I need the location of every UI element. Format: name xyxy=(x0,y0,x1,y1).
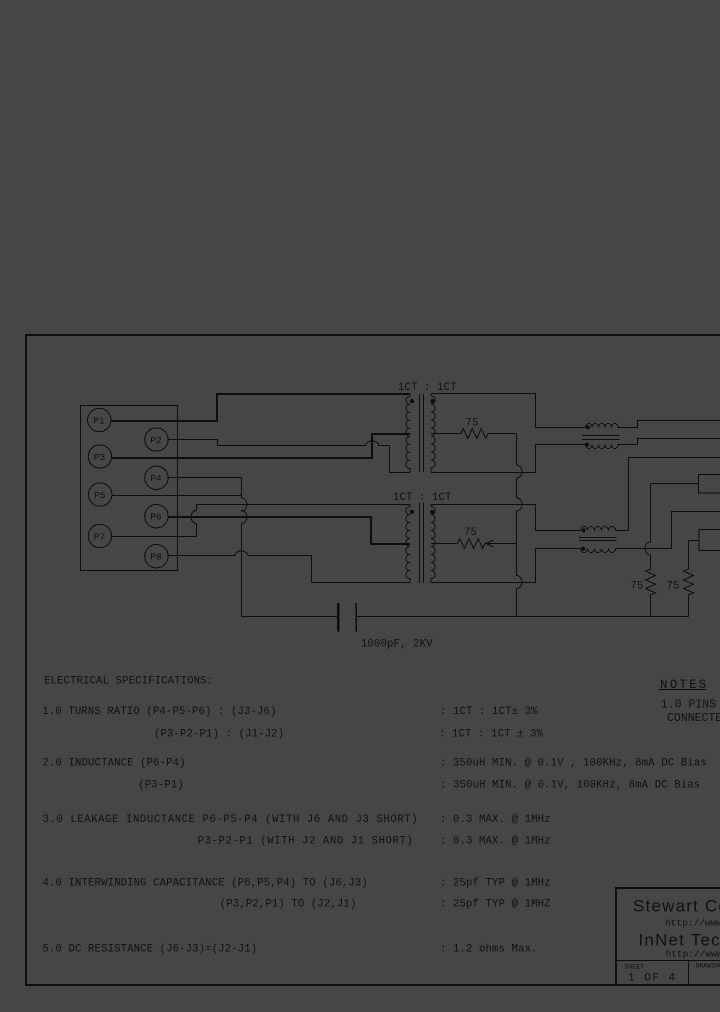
svg-text:1.0 PINS 4: 1.0 PINS 4 xyxy=(661,699,720,712)
choke L1 core xyxy=(582,436,620,440)
svg-text:SHEET: SHEET xyxy=(625,964,645,971)
svg-text:CONNECTED: CONNECTED xyxy=(667,712,720,725)
svg-text:ELECTRICAL SPECIFICATIONS:: ELECTRICAL SPECIFICATIONS: xyxy=(44,676,213,688)
svg-text:P4: P4 xyxy=(150,473,162,484)
connector box P1-P8 xyxy=(81,406,178,571)
title block divider vertical xyxy=(688,961,690,986)
resistor R3 75 ohm vertical xyxy=(645,484,656,617)
transformer T1 primary winding xyxy=(406,394,410,473)
wire T1 secondary top to choke L1 top xyxy=(431,394,586,428)
svg-text:: 350uH MIN. @ 0.1V , 100KHz,: : 350uH MIN. @ 0.1V , 100KHz, 8mA DC Bia… xyxy=(440,758,707,770)
transformer T1 secondary winding xyxy=(431,394,435,473)
wire T2 secondary bottom to choke L2 bottom xyxy=(431,549,581,583)
svg-text:P3: P3 xyxy=(94,452,106,463)
svg-text:75: 75 xyxy=(667,581,680,593)
connector J2 box xyxy=(699,530,720,551)
svg-text:2.0 INDUCTANCE (P6-P4): 2.0 INDUCTANCE (P6-P4) xyxy=(43,758,186,770)
wire bottom rail left segment xyxy=(242,616,338,618)
wire connector J1 to resistor R3 xyxy=(651,483,699,485)
wire P2 to T1 primary bottom xyxy=(168,440,410,473)
svg-text:75: 75 xyxy=(464,527,477,539)
resistor R4 75 ohm vertical xyxy=(684,541,694,617)
transformer T1 primary polarity dot xyxy=(410,399,414,403)
transformer T2 secondary winding xyxy=(431,505,435,583)
wire T1 secondary bottom to choke L1 bottom xyxy=(431,445,586,473)
wire bottom rail right segment xyxy=(357,616,688,618)
wire P7 to T2 primary top xyxy=(112,505,410,537)
svg-text:P6: P6 xyxy=(150,512,162,523)
wire T2 secondary top to choke L2 top xyxy=(431,505,581,531)
wire P3 to T1 primary center tap (bold) xyxy=(112,434,410,458)
wire P4/P5 vertical to bottom rail xyxy=(242,478,248,617)
pin P1 xyxy=(88,408,111,431)
arrow on R2 lead xyxy=(486,540,493,547)
svg-text:: 25pf TYP @ 1MHz: : 25pf TYP @ 1MHz xyxy=(440,878,551,890)
svg-text:http://www.innet.com: http://www.innet.com xyxy=(666,949,720,960)
pin P4 xyxy=(145,466,168,489)
choke L2 core xyxy=(579,538,617,541)
wire P8 to T2 primary bottom xyxy=(168,551,410,583)
pin P2 xyxy=(145,428,168,451)
svg-text:5.0 DC RESISTANCE (J6-J3)=(J2-: 5.0 DC RESISTANCE (J6-J3)=(J2-J1) xyxy=(43,944,258,956)
wire P5 xyxy=(112,495,242,497)
svg-text:1 OF 4: 1 OF 4 xyxy=(628,973,677,985)
transformer T2 core xyxy=(420,503,424,584)
svg-text:3.0 LEAKAGE INDUCTANCE P6-P5-P: 3.0 LEAKAGE INDUCTANCE P6-P5-P4 (WITH J6… xyxy=(43,814,419,826)
wire P4 xyxy=(168,477,241,479)
wire connector J2 to resistor R4 xyxy=(689,540,700,542)
svg-text:Stewart Co: Stewart Co xyxy=(633,897,720,916)
choke L2 top dot xyxy=(582,528,586,532)
svg-text:(P3-P2-P1) : (J1-J2): (P3-P2-P1) : (J1-J2) xyxy=(154,728,284,740)
transformer T1 secondary polarity dot xyxy=(430,399,434,403)
NOTES underline xyxy=(659,689,707,691)
choke L1 bottom winding xyxy=(586,445,619,449)
capacitor C1 left plate xyxy=(337,603,339,632)
svg-text:1CT : 1CT: 1CT : 1CT xyxy=(393,492,452,504)
svg-text:P1: P1 xyxy=(93,415,105,426)
resistor R1 75 ohm on T1 secondary tap xyxy=(431,429,517,439)
pin P3 xyxy=(88,445,111,468)
pin P5 xyxy=(89,483,112,506)
svg-text:: 0.3 MAX. @ 1MHz: : 0.3 MAX. @ 1MHz xyxy=(440,814,551,826)
pin P8 xyxy=(145,545,168,568)
wire P1 to T1 primary top (bold) xyxy=(111,394,410,421)
svg-text:: 25pf TYP @ 1MHZ: : 25pf TYP @ 1MHZ xyxy=(440,899,551,911)
transformer T2 primary winding xyxy=(406,505,410,583)
svg-text:: 1CT : 1CT ± 3%: : 1CT : 1CT ± 3% xyxy=(439,728,544,740)
svg-text:1000pF, 2KV: 1000pF, 2KV xyxy=(361,639,433,651)
wire choke L2 top output xyxy=(616,458,720,531)
choke L2 top winding xyxy=(581,527,616,531)
svg-text:: 350uH MIN. @ 0.1V, 100KHz, 8: : 350uH MIN. @ 0.1V, 100KHz, 8mA DC Bias xyxy=(440,780,700,792)
capacitor C1 right plate xyxy=(355,603,357,632)
connector J1 box xyxy=(699,475,720,494)
pin P7 xyxy=(88,524,111,547)
wire choke L1 top output xyxy=(618,421,720,428)
svg-text:P7: P7 xyxy=(94,531,105,542)
wire R1 vertical to bottom rail xyxy=(517,434,523,617)
choke L1 top winding xyxy=(586,424,619,428)
choke L2 bottom dot xyxy=(581,547,585,551)
title block divider horizontal xyxy=(616,960,720,962)
title block outer frame xyxy=(616,888,720,985)
svg-text:DRAWING N: DRAWING N xyxy=(696,963,720,970)
choke L2 bottom winding xyxy=(581,549,616,553)
svg-text:1.0 TURNS RATIO (P4-P5-P6) : (: 1.0 TURNS RATIO (P4-P5-P6) : (J3-J6) xyxy=(42,706,276,718)
pin P6 xyxy=(145,505,168,528)
wire choke L1 bottom output xyxy=(618,439,720,445)
svg-text:NOTES: NOTES xyxy=(660,678,709,692)
svg-text:: 0.3 MAX. @ 1MHz: : 0.3 MAX. @ 1MHz xyxy=(440,836,551,848)
svg-text:P8: P8 xyxy=(150,552,162,563)
svg-text:1CT : 1CT: 1CT : 1CT xyxy=(398,382,457,394)
wire choke L2 bottom output xyxy=(616,512,720,549)
svg-text:4.0 INTERWINDING CAPACITANCE (: 4.0 INTERWINDING CAPACITANCE (P6,P5,P4) … xyxy=(43,878,368,890)
svg-text:http://www.stewart.com: http://www.stewart.com xyxy=(665,918,720,929)
svg-text:InNet Tec: InNet Tec xyxy=(639,931,720,950)
resistor R2 75 ohm on T2 secondary tap xyxy=(431,539,517,549)
svg-text:: 1.2 ohms Max.: : 1.2 ohms Max. xyxy=(440,944,538,956)
transformer T1 core xyxy=(420,394,424,472)
choke L1 bottom dot xyxy=(585,443,589,447)
svg-text:: 1CT : 1CT± 3%: : 1CT : 1CT± 3% xyxy=(440,706,538,718)
svg-text:P3-P2-P1 (WITH J2 AND J1 SHORT: P3-P2-P1 (WITH J2 AND J1 SHORT) xyxy=(198,836,414,848)
svg-text:P2: P2 xyxy=(150,435,162,446)
svg-text:75: 75 xyxy=(466,418,479,430)
svg-text:(P3,P2,P1) TO (J2,J1): (P3,P2,P1) TO (J2,J1) xyxy=(220,899,357,911)
transformer T2 primary polarity dot xyxy=(410,510,414,514)
wire P6 to T2 primary center tap (bold) xyxy=(168,517,410,544)
sheet border frame xyxy=(26,335,720,985)
transformer T2 secondary polarity dot xyxy=(430,510,434,514)
svg-text:(P3-P1): (P3-P1) xyxy=(138,780,184,792)
choke L1 top dot xyxy=(586,425,590,429)
svg-text:75: 75 xyxy=(631,581,644,593)
svg-text:P5: P5 xyxy=(94,490,106,501)
